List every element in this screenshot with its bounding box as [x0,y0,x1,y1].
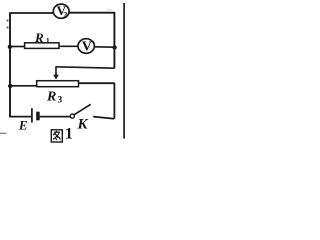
wire: R1 to voltmeter V [59,45,79,47]
voltmeter V2 [53,3,69,19]
switch K [70,104,90,118]
battery E [32,108,40,122]
label R3 [46,90,63,105]
label R1 [34,30,50,45]
node: junction dot right bus [112,45,116,49]
rheostat R3 body [37,81,79,87]
wire: left vertical bus [9,13,11,117]
wire: V to right bus [94,46,114,48]
svg-text:1: 1 [65,125,73,142]
node: junction dot left bus row 3 [8,84,12,88]
svg-text:3: 3 [58,94,63,104]
wire: top horizontal left segment [9,12,53,14]
wire: right upper vertical [113,12,115,68]
wire: bottom left from bus to battery [9,116,31,118]
wire: battery to switch pivot [40,116,70,118]
svg-text:1: 1 [46,36,50,45]
wire: top horizontal right segment [69,12,115,14]
node: junction dot left bus row 2 [8,45,12,49]
resistor R1 [25,43,59,49]
caption 图 1 [51,125,73,142]
wire: R3 right to lower-right corner down to switch [78,83,114,118]
wire: left bus to R1 [10,46,26,48]
voltmeter V [78,39,94,55]
svg-text:R: R [34,30,44,45]
wire: left bus to R3 [10,85,38,87]
svg-text:2: 2 [63,10,67,19]
svg-text:R: R [46,90,56,105]
svg-text:K: K [77,116,89,132]
wire: wiper horizontal from right bus [56,67,115,68]
svg-text:V: V [82,40,92,55]
rheostat R3 wiper arrow [53,66,59,79]
svg-text:E: E [18,117,28,132]
